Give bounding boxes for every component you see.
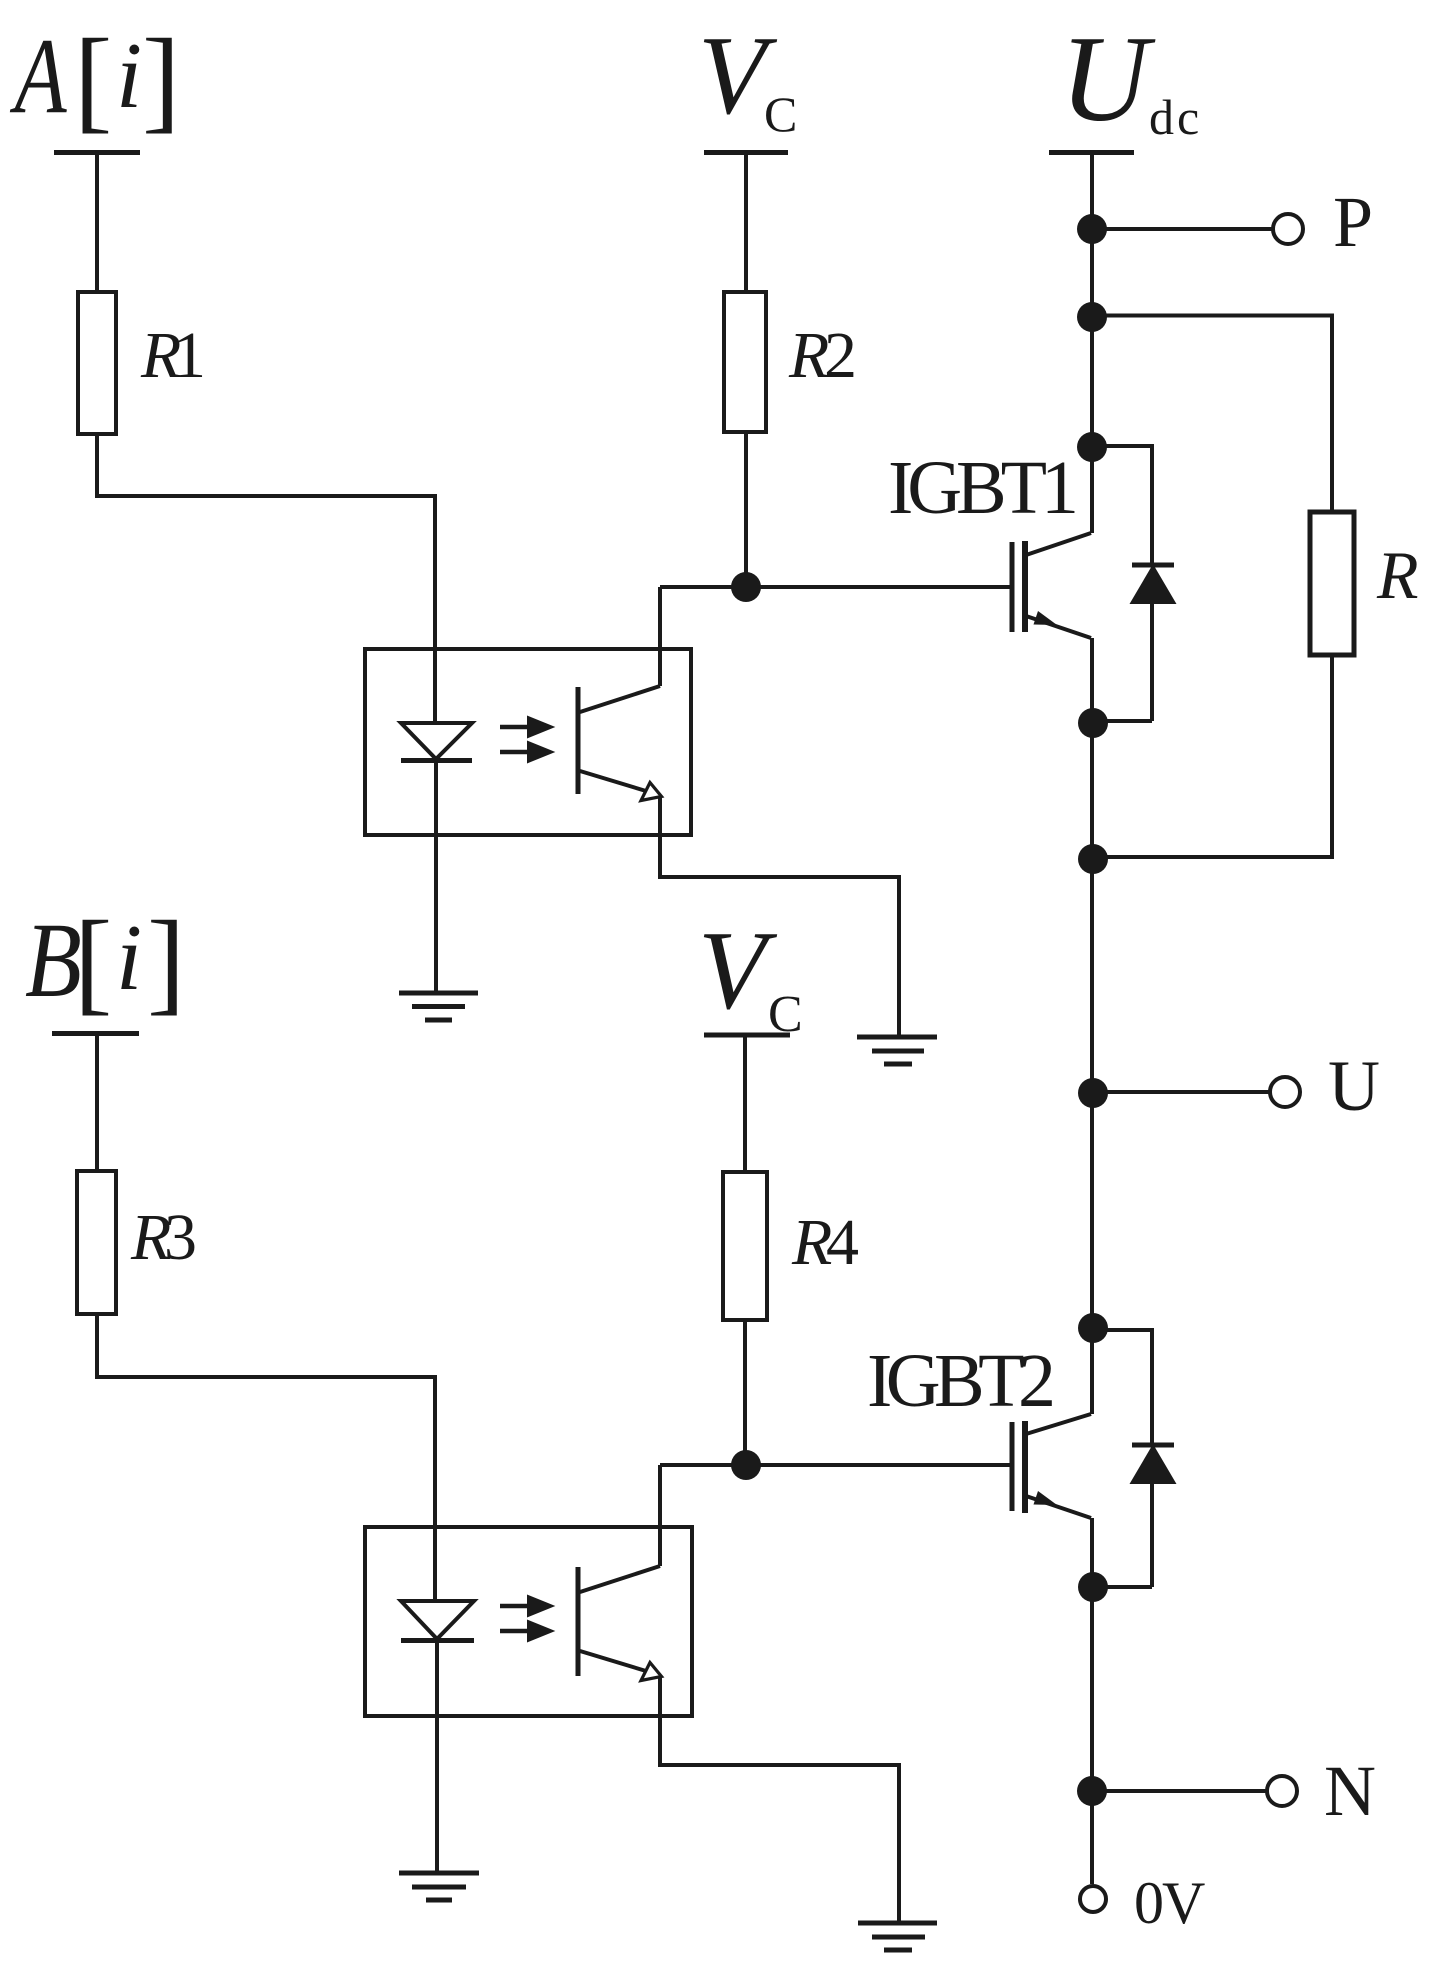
svg-text:0V: 0V xyxy=(1134,1870,1205,1936)
resistor R2 label xyxy=(788,319,857,392)
svg-text:[: [ xyxy=(74,16,112,143)
wire DC rail lower xyxy=(1090,1518,1094,1884)
ground (opto2 emitter) xyxy=(858,1923,937,1950)
resistor R xyxy=(1310,512,1354,655)
node gate2 junction dot xyxy=(731,1450,761,1480)
ground (LED2) xyxy=(399,1873,479,1900)
wire A[i] to R1 xyxy=(95,155,99,292)
wire R4 to gate node 2 xyxy=(743,1320,747,1465)
node A[i] supply bar xyxy=(54,150,140,155)
resistor R1 label xyxy=(140,319,206,392)
optocoupler U2 phototransistor xyxy=(576,1567,581,1676)
node V_C label (bottom) xyxy=(698,909,803,1043)
node V_C label (top) xyxy=(698,14,797,142)
resistor R3 label xyxy=(130,1201,197,1274)
wire LED1 cathode to ground xyxy=(434,763,438,993)
svg-text:V: V xyxy=(698,909,778,1033)
svg-text:3: 3 xyxy=(164,1201,197,1274)
node U junction dot xyxy=(1078,1078,1108,1108)
wire phototransistor2 emitter to ground xyxy=(660,1677,899,1923)
node IGBT2 emitter junction dot xyxy=(1078,1572,1108,1602)
svg-text:R: R xyxy=(1376,537,1419,613)
wire phototransistor1 emitter to ground xyxy=(660,797,899,1037)
wire to terminal P xyxy=(1092,227,1272,231)
diode D2 xyxy=(1132,1443,1174,1448)
wire gate net IGBT1 xyxy=(660,585,1011,589)
svg-text:IGBT2: IGBT2 xyxy=(867,1339,1056,1423)
node B[i] supply bar xyxy=(52,1031,139,1036)
wire DC rail middle xyxy=(1090,638,1094,1414)
wire to terminal N xyxy=(1092,1789,1266,1793)
optocoupler U1 phototransistor xyxy=(576,687,581,794)
svg-text:2: 2 xyxy=(824,319,857,392)
optocoupler U1 LED diode xyxy=(401,723,472,759)
ground (opto1 emitter) xyxy=(857,1037,937,1064)
svg-text:U: U xyxy=(1328,1046,1380,1126)
diode D1 xyxy=(1132,563,1174,568)
svg-text:]: ] xyxy=(142,16,180,143)
node V_C supply bar (top) xyxy=(704,150,788,155)
transistor IGBT2 xyxy=(1010,1422,1015,1511)
node IGBT1 collector junction dot xyxy=(1077,432,1107,462)
resistor R3 xyxy=(77,1171,116,1314)
wire DC rail upper xyxy=(1090,155,1094,533)
wire R1 to optocoupler1 LED anode xyxy=(97,434,435,723)
phototransistor2 emitter arrowhead xyxy=(641,1663,662,1681)
terminal P circle xyxy=(1273,214,1303,244)
svg-text:]: ] xyxy=(147,898,185,1025)
svg-text:4: 4 xyxy=(826,1206,859,1279)
node IGBT1 emitter junction dot xyxy=(1078,708,1108,738)
terminal U circle xyxy=(1270,1077,1300,1107)
node A[i] label xyxy=(9,16,180,143)
svg-text:IGBT1: IGBT1 xyxy=(888,446,1079,530)
svg-text:P: P xyxy=(1333,182,1373,262)
transistor IGBT1 xyxy=(1010,542,1015,632)
resistor R2 xyxy=(724,292,766,432)
optocoupler U2 LED diode xyxy=(401,1601,474,1639)
node U_dc supply bar xyxy=(1049,150,1134,155)
wire resistor R to emitter node xyxy=(1093,655,1332,857)
wire emitter2 node to diode D2 anode xyxy=(1093,1585,1152,1589)
optocoupler U2 light arrows xyxy=(500,1598,550,1640)
terminal N circle xyxy=(1267,1776,1297,1806)
ground (LED1) xyxy=(399,993,478,1020)
svg-text:1: 1 xyxy=(173,319,206,392)
svg-text:U: U xyxy=(1060,10,1156,147)
optocoupler U2 box xyxy=(365,1527,692,1716)
IGBT1 emitter arrow xyxy=(1034,611,1058,625)
node P junction dot xyxy=(1077,214,1107,244)
IGBT2 emitter arrow xyxy=(1034,1491,1058,1505)
resistor R4 label xyxy=(791,1206,859,1279)
node B[i] label xyxy=(25,898,185,1025)
svg-text:N: N xyxy=(1324,1751,1376,1831)
wire to terminal U xyxy=(1093,1090,1269,1094)
svg-text:dc: dc xyxy=(1149,89,1202,145)
node IGBT2 collector junction dot xyxy=(1078,1313,1108,1343)
node R-branch junction dot xyxy=(1077,302,1107,332)
node U_dc label xyxy=(1060,10,1202,147)
transistor IGBT2 label xyxy=(867,1339,1056,1423)
svg-text:A: A xyxy=(9,17,67,137)
optocoupler U1 box xyxy=(365,649,691,835)
terminal 0V circle xyxy=(1080,1886,1106,1912)
wire V_C to R2 xyxy=(744,155,748,292)
wire LED2 cathode to ground xyxy=(435,1643,439,1873)
node R-bottom junction dot xyxy=(1078,844,1108,874)
wire V_C to R4 xyxy=(743,1037,747,1172)
wire collector to diode D1 xyxy=(1092,446,1152,565)
node gate1 junction dot xyxy=(731,572,761,602)
resistor R4 xyxy=(723,1172,767,1320)
transistor IGBT1 label xyxy=(888,446,1079,530)
svg-text:i: i xyxy=(116,24,142,128)
node V_C supply bar (bottom) xyxy=(704,1033,790,1038)
svg-text:C: C xyxy=(768,986,803,1043)
phototransistor1 emitter arrowhead xyxy=(641,783,662,801)
wire R3 to optocoupler2 LED anode xyxy=(97,1314,435,1601)
wire collector2 to diode D2 xyxy=(1093,1330,1152,1445)
wire gate net IGBT2 xyxy=(660,1463,1011,1467)
node N junction dot xyxy=(1077,1776,1107,1806)
svg-text:i: i xyxy=(116,906,142,1010)
wire emitter node to diode D1 anode xyxy=(1093,719,1152,723)
svg-text:C: C xyxy=(764,86,797,142)
wire to resistor R xyxy=(1092,316,1332,513)
svg-text:[: [ xyxy=(74,898,112,1025)
resistor R1 xyxy=(78,292,116,434)
wire B[i] to R3 xyxy=(95,1036,99,1171)
optocoupler U1 light arrows xyxy=(500,719,550,761)
wire R2 to gate node xyxy=(744,432,748,587)
